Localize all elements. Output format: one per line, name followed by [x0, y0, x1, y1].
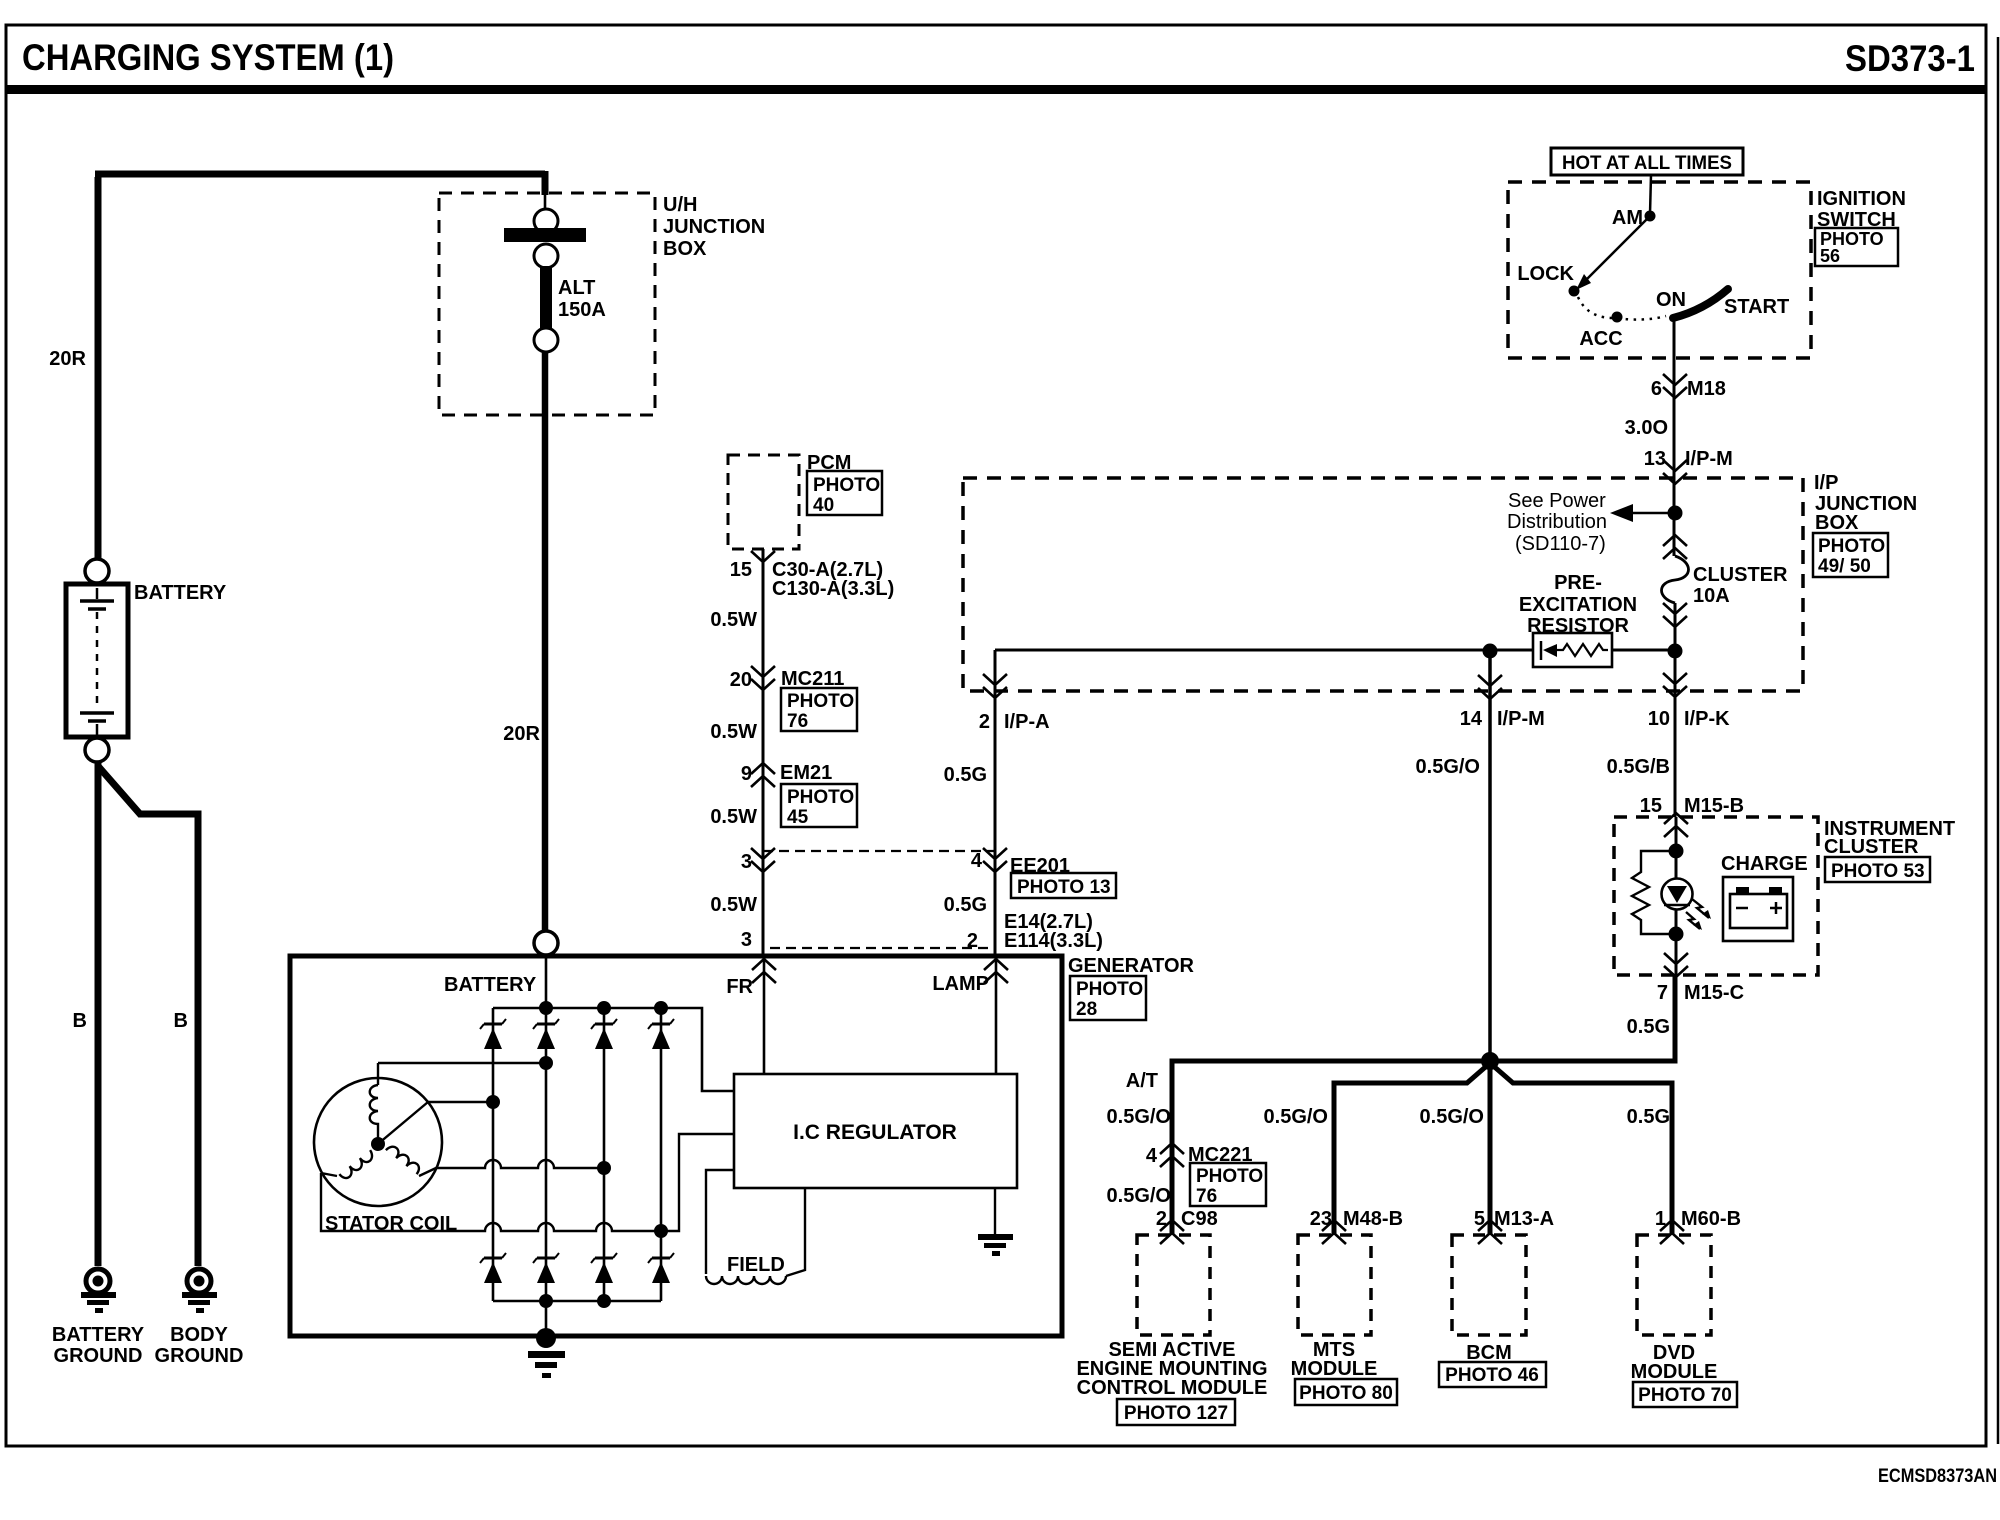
svg-text:PHOTO: PHOTO: [787, 691, 854, 712]
svg-text:BCM: BCM: [1466, 1342, 1512, 1364]
diode D1 (top row): [480, 1019, 506, 1049]
connector I/P-K pin 10: [1648, 673, 1730, 730]
fuse ALT 150A: [504, 209, 586, 352]
svg-text:PHOTO 13: PHOTO 13: [1017, 877, 1111, 898]
svg-text:0.5G: 0.5G: [1627, 1016, 1670, 1038]
svg-text:3.0O: 3.0O: [1625, 417, 1668, 439]
stator coil circle: [314, 1078, 442, 1206]
svg-text:AM: AM: [1612, 207, 1643, 229]
svg-text:0.5G/O: 0.5G/O: [1420, 1106, 1484, 1128]
svg-text:Distribution: Distribution: [1507, 511, 1607, 533]
wire rectifier row4 to regulator: [661, 1134, 734, 1231]
svg-text:U/H: U/H: [663, 194, 697, 216]
diode D2 (top row): [533, 1019, 559, 1049]
see power distribution reference: [1507, 490, 1669, 555]
generator internal main wire: [545, 956, 548, 1336]
connector I/P-M pin 13: [1644, 448, 1733, 484]
instrument cluster box (dashed): [1614, 817, 1818, 975]
PHOTO 28 box (generator): [1070, 976, 1146, 1020]
label 0.5G (M15-C wire): [1627, 1016, 1670, 1038]
svg-text:0.5G/B: 0.5G/B: [1607, 756, 1670, 778]
svg-text:BATTERY: BATTERY: [134, 582, 227, 604]
battery ground symbol: [81, 1269, 116, 1313]
svg-text:20: 20: [730, 669, 752, 691]
svg-text:M13-A: M13-A: [1494, 1208, 1554, 1230]
label 0.5G segment 2: [944, 894, 987, 916]
label FIELD: [727, 1254, 785, 1276]
connector M15-C pin 7: [1657, 953, 1744, 1004]
label BODY GROUND: [155, 1324, 244, 1367]
junction node cluster bottom: [1669, 927, 1684, 942]
wire B body ground branch: [98, 766, 198, 1266]
wire ignition ON to I/P junction box (3.0O): [1673, 319, 1676, 556]
svg-text:IGNITION: IGNITION: [1817, 188, 1906, 210]
wire LAMP regulator to generator top: [995, 957, 998, 1074]
svg-text:BOX: BOX: [663, 238, 707, 260]
generator box: [290, 956, 1062, 1336]
hub junction node: [1481, 1052, 1499, 1070]
svg-text:14: 14: [1460, 708, 1483, 730]
diode column lines: [493, 1008, 661, 1301]
wire 20R battery to U/H junction box: [95, 171, 545, 559]
svg-text:76: 76: [787, 711, 808, 732]
wire hub to A/T branch: [1172, 1061, 1490, 1235]
connector M48-B pin 23: [1310, 1208, 1403, 1244]
svg-text:C98: C98: [1181, 1208, 1218, 1230]
label 0.5W segment 1: [710, 609, 757, 631]
diode bridge bottom bus: [493, 1294, 661, 1308]
label CHARGE: [1721, 853, 1808, 875]
svg-text:0.5G: 0.5G: [944, 764, 987, 786]
svg-text:(SD110-7): (SD110-7): [1515, 533, 1606, 555]
ignition switch arm: [1576, 216, 1650, 290]
svg-text:13: 13: [1644, 448, 1666, 470]
label INSTRUMENT CLUSTER: [1824, 818, 1955, 858]
svg-text:MC211: MC211: [781, 668, 844, 690]
label I/P JUNCTION BOX: [1814, 472, 1917, 534]
svg-text:PRE-: PRE-: [1554, 572, 1602, 594]
connector pin 15 C30-A/C130-A: [730, 551, 895, 600]
svg-text:I/P: I/P: [1814, 472, 1838, 494]
svg-text:M15-B: M15-B: [1684, 795, 1744, 817]
svg-text:0.5G/O: 0.5G/O: [1107, 1106, 1171, 1128]
PHOTO 127 box: [1117, 1399, 1235, 1425]
svg-text:0.5G/O: 0.5G/O: [1416, 756, 1480, 778]
svg-text:15: 15: [1640, 795, 1662, 817]
svg-text:JUNCTION: JUNCTION: [663, 216, 765, 238]
charge warning lamp LED: [1662, 879, 1712, 931]
wire M15-C to hub: [1494, 975, 1675, 1061]
wire hub to BCM: [1488, 1061, 1493, 1235]
label 0.5W segment 2: [710, 721, 757, 743]
label A/T: [1126, 1070, 1158, 1092]
svg-text:4: 4: [971, 850, 983, 872]
svg-text:GENERATOR: GENERATOR: [1068, 955, 1194, 977]
connector EE201 pin 4: [971, 848, 1070, 877]
connector pin 2 I/P-A: [979, 674, 1050, 733]
PCM box (dashed): [728, 455, 799, 549]
svg-text:CHARGING SYSTEM (1): CHARGING SYSTEM (1): [22, 37, 394, 78]
semi active engine mounting control module box (dashed): [1137, 1235, 1210, 1335]
label pin 3 lower: [741, 929, 752, 951]
stator spoke lead: [378, 1102, 428, 1144]
svg-text:I/P-M: I/P-M: [1685, 448, 1733, 470]
svg-text:20R: 20R: [49, 348, 86, 370]
title SD373-1: [1845, 38, 1975, 79]
START position arc: [1673, 289, 1789, 318]
I/P junction box (dashed): [963, 478, 1803, 691]
svg-text:PHOTO: PHOTO: [813, 475, 880, 496]
label 20R left wire: [49, 348, 86, 370]
svg-text:B: B: [174, 1010, 188, 1032]
fuse CLUSTER 10A: [1662, 535, 1789, 627]
svg-text:49/ 50: 49/ 50: [1818, 556, 1871, 577]
label BATTERY: [134, 582, 227, 604]
EE201 dashed boundary box: [763, 851, 995, 948]
svg-text:10: 10: [1648, 708, 1670, 730]
cluster internal wire: [1675, 817, 1678, 975]
generator LAMP pin chevrons: [932, 959, 1008, 995]
label B (body ground wire): [174, 1010, 188, 1032]
stator winding phase 3 (lower left coil): [339, 1150, 375, 1181]
stator wire row 3 to rectifier: [419, 1160, 611, 1176]
label 20R alternator wire: [503, 723, 540, 745]
wire hub to DVD module: [1490, 1063, 1672, 1235]
node LOCK: [1517, 263, 1579, 297]
svg-text:10A: 10A: [1693, 585, 1730, 607]
svg-text:SD373-1: SD373-1: [1845, 38, 1975, 79]
label DVD MODULE: [1631, 1342, 1718, 1383]
connector M60-B pin 1: [1655, 1208, 1741, 1244]
junction node at See Power tap: [1668, 506, 1683, 521]
diode D8 (bottom row): [648, 1253, 674, 1283]
svg-text:EXCITATION: EXCITATION: [1519, 594, 1637, 616]
label 0.5G/O (A/T wire): [1107, 1106, 1171, 1128]
svg-text:ALT: ALT: [558, 277, 595, 299]
label 0.5G/O (BCM wire): [1420, 1106, 1484, 1128]
svg-text:B: B: [73, 1010, 87, 1032]
svg-text:9: 9: [741, 763, 752, 785]
svg-text:28: 28: [1076, 999, 1097, 1020]
label 0.5W segment 4: [710, 894, 757, 916]
svg-text:PHOTO: PHOTO: [1196, 1166, 1263, 1187]
wire FR regulator to generator top: [763, 957, 766, 1074]
label ALT 150A: [558, 277, 606, 321]
svg-text:E114(3.3L): E114(3.3L): [1004, 930, 1103, 952]
svg-text:40: 40: [813, 495, 834, 516]
PHOTO 80 box: [1295, 1379, 1397, 1405]
svg-text:BOX: BOX: [1815, 512, 1859, 534]
PHOTO 13 box (EE201): [1011, 873, 1116, 898]
diode D5 (bottom row): [480, 1253, 506, 1283]
connector M15-B pin 15: [1640, 795, 1744, 837]
wire B battery ground branch: [95, 761, 102, 1266]
wire FR circuit PCM to generator (0.5W): [762, 549, 765, 956]
svg-text:ON: ON: [1656, 289, 1686, 311]
svg-text:23: 23: [1310, 1208, 1332, 1230]
label BCM: [1466, 1342, 1512, 1364]
svg-text:PHOTO: PHOTO: [787, 787, 854, 808]
svg-text:CONTROL MODULE: CONTROL MODULE: [1077, 1377, 1268, 1399]
label IGNITION SWITCH: [1817, 188, 1906, 231]
svg-text:PHOTO: PHOTO: [1818, 536, 1885, 557]
svg-text:ACC: ACC: [1579, 328, 1622, 350]
svg-text:0.5W: 0.5W: [710, 721, 757, 743]
svg-text:I/P-M: I/P-M: [1497, 708, 1545, 730]
wire 20R alternator feed: [542, 352, 549, 932]
svg-text:0.5W: 0.5W: [710, 609, 757, 631]
node ACC: [1579, 312, 1622, 351]
MTS module box (dashed): [1298, 1235, 1371, 1335]
svg-text:CLUSTER: CLUSTER: [1693, 564, 1788, 586]
svg-text:0.5G: 0.5G: [944, 894, 987, 916]
label MTS MODULE: [1291, 1339, 1378, 1380]
svg-text:45: 45: [787, 807, 809, 828]
connector pin 3 (EE201 left): [741, 848, 775, 873]
top bus extension to regulator: [661, 1008, 734, 1091]
label PCM: [807, 452, 851, 474]
svg-text:0.5G/O: 0.5G/O: [1107, 1185, 1171, 1207]
svg-text:HOT AT ALL TIMES: HOT AT ALL TIMES: [1562, 152, 1732, 174]
svg-text:BATTERY: BATTERY: [52, 1324, 145, 1346]
svg-text:PHOTO: PHOTO: [1076, 979, 1143, 1000]
PHOTO 40 box: [807, 471, 882, 516]
svg-text:56: 56: [1820, 246, 1840, 266]
battery: [66, 559, 128, 762]
DVD module box (dashed): [1637, 1235, 1711, 1335]
svg-text:LAMP: LAMP: [932, 973, 989, 995]
wire fuse to resistor node: [1674, 603, 1677, 648]
wire resistor feed horizontal: [995, 649, 1675, 652]
junction node cluster top: [1669, 844, 1684, 859]
diode bridge top bus: [493, 1001, 668, 1015]
body ground symbol: [182, 1269, 217, 1313]
svg-text:0.5W: 0.5W: [710, 806, 757, 828]
connector C98 pin 2: [1156, 1208, 1218, 1244]
generator FR pin chevrons: [726, 959, 776, 998]
svg-text:PHOTO 46: PHOTO 46: [1445, 1365, 1539, 1386]
label 0.5G/B: [1607, 756, 1670, 778]
title CHARGING SYSTEM (1): [22, 37, 394, 78]
svg-text:3: 3: [741, 929, 752, 951]
stator wire row 1 to rectifier: [378, 1056, 553, 1070]
pre-excitation resistor R1: [1519, 572, 1637, 667]
cluster shunt resistor: [1632, 851, 1676, 934]
svg-text:EM21: EM21: [780, 762, 832, 784]
label GENERATOR: [1068, 955, 1194, 977]
wire I/P-K to cluster (0.5G/B): [1674, 651, 1677, 817]
PHOTO 76 box (MC221): [1190, 1163, 1266, 1207]
svg-text:15: 15: [730, 559, 752, 581]
svg-text:BATTERY: BATTERY: [444, 974, 537, 996]
svg-text:START: START: [1724, 296, 1789, 318]
U/H junction box (dashed): [439, 193, 655, 415]
svg-text:2: 2: [979, 711, 990, 733]
HOT AT ALL TIMES box: [1551, 148, 1743, 175]
svg-text:7: 7: [1657, 982, 1668, 1004]
label STATOR COIL: [325, 1213, 457, 1235]
svg-text:20R: 20R: [503, 723, 540, 745]
svg-text:MODULE: MODULE: [1291, 1358, 1378, 1380]
svg-text:M18: M18: [1687, 378, 1726, 400]
svg-text:M15-C: M15-C: [1684, 982, 1744, 1004]
label B (battery ground wire): [73, 1010, 87, 1032]
svg-text:PHOTO 127: PHOTO 127: [1124, 1403, 1228, 1424]
label 0.5W segment 3: [710, 806, 757, 828]
label 0.5G (DVD wire): [1627, 1106, 1670, 1128]
wire hub to MTS module: [1334, 1063, 1490, 1235]
PHOTO 53 box (instrument cluster): [1825, 857, 1930, 882]
svg-text:CLUSTER: CLUSTER: [1824, 836, 1919, 858]
terminal circle at generator B+: [534, 931, 558, 955]
svg-text:FIELD: FIELD: [727, 1254, 785, 1276]
wire AM feed: [1650, 175, 1651, 214]
label SEMI ACTIVE ENGINE MOUNTING CONTROL MODULE: [1076, 1339, 1267, 1399]
svg-text:0.5G: 0.5G: [1627, 1106, 1670, 1128]
PHOTO 76 box (MC211): [781, 688, 857, 732]
label 0.5G/O (MTS wire): [1264, 1106, 1328, 1128]
svg-text:BODY: BODY: [170, 1324, 228, 1346]
stator wire row 4 to rectifier: [321, 1173, 668, 1238]
PHOTO 49/50 box (I/P junction box): [1813, 533, 1888, 577]
svg-text:GROUND: GROUND: [155, 1345, 244, 1367]
stator winding phase 2 (lower right coil): [386, 1144, 422, 1175]
svg-text:I.C REGULATOR: I.C REGULATOR: [793, 1121, 957, 1144]
diode D4 (top row): [648, 1019, 674, 1049]
junction node resistor left: [1483, 644, 1498, 659]
svg-text:M48-B: M48-B: [1343, 1208, 1403, 1230]
label 0.5G/O (I/P-M wire): [1416, 756, 1480, 778]
svg-text:76: 76: [1196, 1186, 1217, 1207]
PHOTO 56 box (ignition switch): [1815, 228, 1898, 266]
svg-text:ECMSD8373AN: ECMSD8373AN: [1878, 1466, 1997, 1487]
connector M13-A pin 5: [1474, 1208, 1554, 1244]
connector MC221 pin 4: [1146, 1143, 1253, 1167]
ignition switch box (dashed): [1508, 182, 1811, 358]
svg-text:2: 2: [967, 930, 978, 952]
connector MC211 pin 20: [730, 666, 845, 691]
PHOTO 45 box (EM21): [781, 784, 857, 828]
svg-text:0.5G/O: 0.5G/O: [1264, 1106, 1328, 1128]
diagram code ECMSD8373AN: [1878, 1466, 1997, 1487]
junction node resistor right: [1668, 644, 1683, 659]
wire I/P-M lamp feed vertical: [1488, 651, 1492, 1061]
svg-text:150A: 150A: [558, 299, 606, 321]
connector M18 pin 6: [1651, 374, 1726, 400]
PHOTO 46 box: [1439, 1362, 1546, 1387]
svg-text:GROUND: GROUND: [54, 1345, 143, 1367]
switch travel arc (dotted): [1578, 297, 1666, 320]
svg-text:FR: FR: [726, 976, 753, 998]
diode D7 (bottom row): [591, 1253, 617, 1283]
label BATTERY GROUND: [52, 1324, 145, 1367]
svg-text:See Power: See Power: [1508, 490, 1606, 512]
svg-text:STATOR COIL: STATOR COIL: [325, 1213, 457, 1235]
svg-text:M60-B: M60-B: [1681, 1208, 1741, 1230]
svg-text:0.5W: 0.5W: [710, 894, 757, 916]
svg-text:6: 6: [1651, 378, 1662, 400]
label 3.0O: [1625, 417, 1668, 439]
svg-text:I/P-A: I/P-A: [1004, 711, 1050, 733]
svg-text:4: 4: [1146, 1145, 1158, 1167]
connector I/P-M pin 14: [1460, 675, 1545, 730]
BCM box (dashed): [1452, 1235, 1526, 1335]
svg-text:PHOTO 80: PHOTO 80: [1299, 1383, 1393, 1404]
svg-text:A/T: A/T: [1126, 1070, 1158, 1092]
wire lamp circuit I/P-A to generator (0.5G): [994, 650, 997, 956]
svg-text:PHOTO 53: PHOTO 53: [1831, 861, 1925, 882]
PHOTO 70 box: [1633, 1382, 1737, 1407]
field coil circuit: [706, 1170, 805, 1284]
label 0.5G (I/P-A wire): [944, 764, 987, 786]
node AM: [1612, 207, 1656, 229]
charge battery icon: [1723, 877, 1793, 941]
stator winding phase 1 (top coil): [370, 1063, 378, 1140]
regulator ground: [978, 1188, 1013, 1256]
label 0.5G/O (C98 wire): [1107, 1185, 1171, 1207]
label BATTERY pin (generator): [444, 974, 537, 996]
svg-text:3: 3: [741, 851, 752, 873]
label E14/E114 connector: [967, 911, 1103, 952]
connector EM21 pin 9: [741, 762, 832, 787]
stator wire row 2 to rectifier: [428, 1095, 500, 1109]
label U/H JUNCTION BOX: [663, 194, 765, 260]
generator main ground: [528, 1328, 565, 1378]
diode D6 (bottom row): [533, 1253, 559, 1283]
svg-text:I/P-K: I/P-K: [1684, 708, 1730, 730]
svg-text:PHOTO 70: PHOTO 70: [1638, 1385, 1732, 1406]
IC regulator U1: [734, 1074, 1017, 1188]
svg-text:CHARGE: CHARGE: [1721, 853, 1808, 875]
diode D3 (top row): [591, 1019, 617, 1049]
svg-text:C130-A(3.3L): C130-A(3.3L): [772, 578, 894, 600]
svg-text:LOCK: LOCK: [1517, 263, 1574, 285]
node ON: [1656, 289, 1686, 311]
svg-text:MODULE: MODULE: [1631, 1361, 1718, 1383]
